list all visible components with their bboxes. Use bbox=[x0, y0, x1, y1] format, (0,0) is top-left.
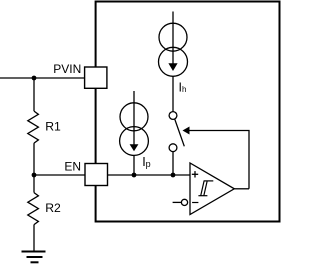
svg-text:EN: EN bbox=[64, 159, 81, 173]
svg-text:R1: R1 bbox=[45, 120, 61, 134]
svg-text:PVIN: PVIN bbox=[53, 62, 81, 76]
svg-text:R2: R2 bbox=[45, 201, 61, 215]
